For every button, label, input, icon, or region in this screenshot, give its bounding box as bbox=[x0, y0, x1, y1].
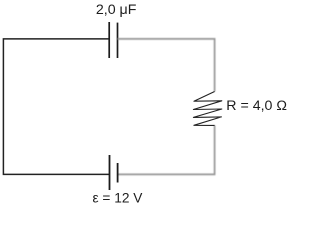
svg-text:ε = 12 V: ε = 12 V bbox=[93, 191, 144, 206]
resistor R zigzag bbox=[193, 92, 221, 126]
svg-text:R = 4,0 Ω: R = 4,0 Ω bbox=[226, 98, 287, 114]
battery B1 short plate (negative) bbox=[117, 163, 119, 183]
capacitor C1 plate left bbox=[108, 22, 110, 58]
wire: black loop left side (top-left, left, bottom-left) bbox=[3, 39, 109, 175]
capacitor C1 plate right bbox=[117, 23, 119, 58]
wire: gray top-right segment and right side down to resistor bbox=[118, 39, 215, 92]
battery B1 long plate (positive) bbox=[109, 155, 111, 190]
svg-text:2,0 μF: 2,0 μF bbox=[96, 2, 137, 18]
wire: gray right side below resistor and bottom-right segment bbox=[118, 125, 215, 174]
